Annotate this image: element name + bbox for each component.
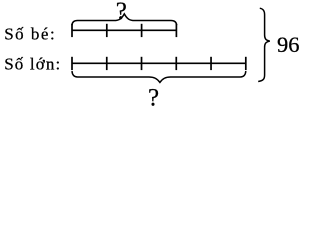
small bar tick 4 <box>175 24 177 37</box>
large bar tick 5 <box>210 57 212 70</box>
small bar tick 2 <box>106 24 108 37</box>
svg-text:?: ? <box>116 0 127 25</box>
right curly brace for total <box>258 8 270 81</box>
small bar tick 1 <box>71 24 73 37</box>
bottom under-brace <box>72 71 246 82</box>
large bar tick 3 <box>141 57 143 70</box>
large bar tick 1 <box>71 57 73 70</box>
large-number bar line <box>72 62 246 64</box>
svg-text:?: ? <box>148 85 159 111</box>
small-number bar line <box>72 29 176 31</box>
small bar tick 3 <box>141 24 143 37</box>
svg-text:Số lớn:: Số lớn: <box>4 55 60 74</box>
svg-text:96: 96 <box>277 32 300 57</box>
large bar tick 2 <box>106 57 108 70</box>
large bar tick 4 <box>175 57 177 70</box>
top over-brace <box>72 14 177 25</box>
large bar tick 6 <box>245 57 247 70</box>
